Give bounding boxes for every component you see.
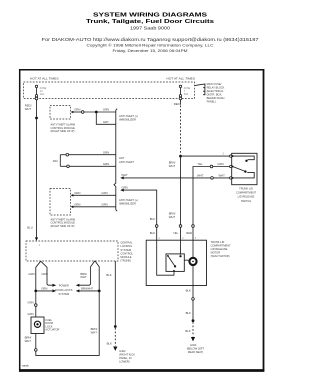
- fuse F7 wire RED dashed down: [174, 100, 181, 155]
- ground symbol G403: [191, 337, 195, 341]
- actuator label: [45, 318, 59, 332]
- connector on pin2 wire: [210, 165, 213, 168]
- svg-text:TRUNK LID: TRUNK LID: [211, 240, 225, 244]
- svg-text:ACTUATOR: ACTUATOR: [45, 328, 59, 332]
- splice S64: [53, 155, 61, 167]
- svg-text:BLU: BLU: [27, 226, 32, 230]
- anti-theft alarm control module (upper, dashed): [50, 106, 71, 120]
- svg-text:(BELOW LEFT: (BELOW LEFT: [187, 347, 205, 351]
- svg-text:LOWER): LOWER): [119, 359, 130, 363]
- svg-text:SYSTEM WIRING DIAGRAMS: SYSTEM WIRING DIAGRAMS: [93, 13, 208, 19]
- svg-text:WHT: WHT: [25, 339, 32, 343]
- svg-text:SWITCH: SWITCH: [241, 199, 251, 203]
- connector on fuse F7 output: [179, 97, 182, 100]
- svg-text:GRN: GRN: [101, 191, 107, 195]
- internal bottom contact: [173, 270, 175, 272]
- internal contact dot: [179, 255, 181, 257]
- left arrow wire down to motor (BLK): [120, 185, 157, 224]
- svg-text:GRN: GRN: [42, 272, 48, 276]
- svg-text:IMMOBILIZER: IMMOBILIZER: [119, 117, 136, 121]
- junction dot on left leg: [34, 290, 37, 293]
- svg-text:TRUNK LID: TRUNK LID: [239, 186, 253, 190]
- svg-text:ANTI-THEFT: ANTI-THEFT: [119, 160, 135, 164]
- svg-text:(RIGHT KICK: (RIGHT KICK: [119, 352, 135, 356]
- svg-text:GRN: GRN: [27, 312, 33, 316]
- svg-text:(RIGHT SIDE OF IP): (RIGHT SIDE OF IP): [51, 129, 75, 133]
- svg-text:MOTOR: MOTOR: [211, 251, 221, 255]
- svg-text:DISTR. BOX,: DISTR. BOX,: [207, 93, 223, 97]
- fuse F14: [35, 85, 46, 97]
- svg-text:RELAY BLOCK: RELAY BLOCK: [207, 86, 225, 90]
- svg-text:COMPARTMENT: COMPARTMENT: [211, 243, 231, 247]
- motor M (ring): [189, 258, 196, 265]
- destination label: hot anti-theft (middle): [119, 156, 135, 164]
- svg-text:(RIGHT SIDE OF IP): (RIGHT SIDE OF IP): [51, 224, 75, 228]
- svg-text:G402: G402: [119, 349, 126, 353]
- svg-text:HOT AT ALL TIMES: HOT AT ALL TIMES: [167, 77, 196, 81]
- junction dot on tent2 right leg: [98, 290, 101, 293]
- svg-text:2: 2: [182, 237, 184, 240]
- fuse F7: [179, 85, 190, 97]
- svg-text:BRN/WHT: BRN/WHT: [81, 286, 94, 290]
- svg-text:POWER: POWER: [59, 284, 69, 288]
- motor box location text: [211, 240, 231, 258]
- wire from arrow to tent2 right leg junction: [79, 290, 99, 292]
- svg-text:GRN: GRN: [217, 162, 223, 166]
- svg-text:ANTI-THEFT (+): ANTI-THEFT (+): [119, 198, 138, 202]
- svg-text:BLK: BLK: [186, 311, 191, 315]
- BLK wire from module right bottom: [106, 261, 115, 325]
- trunk lid release switch box: [232, 153, 257, 184]
- inline connector near fuel actuator: [35, 349, 38, 352]
- svg-text:10A: 10A: [40, 93, 45, 96]
- svg-text:3: 3: [195, 237, 197, 240]
- motor ground lead inside box: [192, 266, 194, 286]
- dashed ground run: [107, 328, 116, 346]
- inline connector: [35, 304, 38, 307]
- switch lever from pin 2: [233, 167, 246, 172]
- svg-text:GRN: GRN: [121, 185, 127, 189]
- destination label: anti-theft immobilizer (bottom): [119, 198, 138, 205]
- trunk lid release motor box: [146, 240, 206, 285]
- wire into motor box: [173, 227, 181, 240]
- svg-text:Friday, December 15, 2006 06:: Friday, December 15, 2006 06:04PM: [113, 49, 188, 53]
- svg-text:saab: saab: [22, 363, 29, 367]
- connector on S64 top wire: [66, 153, 69, 156]
- svg-text:ANTI-THEFT (+): ANTI-THEFT (+): [119, 114, 138, 118]
- svg-text:WHT: WHT: [219, 173, 226, 177]
- svg-text:WHT: WHT: [121, 173, 128, 177]
- connector on F7 wire: [179, 225, 182, 228]
- module location text: [51, 218, 76, 228]
- svg-text:PANEL): PANEL): [207, 100, 216, 104]
- svg-text:BLK: BLK: [107, 342, 112, 346]
- Y-split output 1 from module (lock): [28, 261, 40, 289]
- wire from arrow to tent2 left leg: [79, 261, 95, 286]
- svg-text:WHT: WHT: [169, 215, 176, 219]
- svg-text:1997 Saab 9000: 1997 Saab 9000: [130, 26, 171, 31]
- svg-text:GRN: GRN: [103, 108, 109, 112]
- svg-text:GRN: GRN: [101, 203, 107, 207]
- destination label: anti-theft immobilizer (top): [119, 114, 138, 121]
- wire continues down: [36, 118, 38, 238]
- svg-text:SYSTEM: SYSTEM: [58, 292, 69, 296]
- GRN wire to brace: [84, 108, 116, 112]
- wire RED/WHT from fuse F14 down to central locking module: [25, 100, 37, 117]
- switch pin 1 terminal: [230, 155, 232, 157]
- svg-text:LID RELEASE: LID RELEASE: [211, 247, 228, 251]
- distribution box location label with bracket: [195, 82, 225, 104]
- svg-text:WHT: WHT: [25, 107, 32, 111]
- pin arrow upper: [71, 194, 74, 197]
- pin arrow at module right edge: [71, 111, 74, 114]
- svg-text:LID RELEASE: LID RELEASE: [238, 195, 255, 199]
- Y-split right leg: [41, 261, 53, 285]
- link internal switch to motor: [184, 259, 189, 261]
- svg-text:BLK: BLK: [150, 217, 155, 221]
- actuator motor ring: [34, 321, 40, 327]
- svg-text:S64: S64: [53, 159, 58, 163]
- junction dot on GRN wire: [95, 111, 98, 114]
- wire from switch pin 2 down to motor: [193, 162, 230, 225]
- wire segment to actuator: [27, 306, 35, 317]
- wire from S64 bottom to brace: [60, 165, 66, 167]
- wire segment: [69, 165, 116, 167]
- off-page arrow lower right: [76, 289, 80, 292]
- svg-text:GRY: GRY: [103, 120, 109, 124]
- svg-text:WHT: WHT: [169, 164, 176, 168]
- svg-text:BLK: BLK: [185, 329, 190, 333]
- switch contact dot (pin1 side): [245, 160, 247, 162]
- svg-text:REAR SEAT): REAR SEAT): [188, 350, 204, 354]
- brace grouping destination wires: [114, 109, 117, 211]
- svg-text:30A: 30A: [184, 93, 189, 96]
- ground G403 label: [187, 343, 205, 354]
- wire GRN from anti-theft module: [73, 108, 81, 112]
- svg-text:G403: G403: [190, 343, 197, 347]
- wire GRN upper to brace: [73, 191, 115, 195]
- anti-theft alarm control module (lower, dashed): [50, 189, 71, 216]
- svg-text:HOT: HOT: [119, 156, 125, 160]
- left arrow wire to trunk lid switch (WHT): [120, 173, 229, 179]
- wire from S64 top to brace: [60, 154, 66, 156]
- svg-text:HOT AT ALL TIMES: HOT AT ALL TIMES: [30, 77, 59, 81]
- fuel door lock actuator box: [31, 317, 44, 334]
- svg-text:SYSTEM: SYSTEM: [120, 248, 131, 252]
- module location text: [51, 123, 76, 133]
- module location text: [120, 241, 133, 263]
- switch pin 2 terminal: [230, 165, 232, 167]
- splice dot on RED/WHT wire: [35, 117, 38, 120]
- svg-text:Trunk, Tailgate, Fuel Door Cir: Trunk, Tailgate, Fuel Door Circuits: [86, 19, 214, 25]
- splice dot: [114, 325, 117, 328]
- ground wire segment: [186, 300, 193, 319]
- connector on S64 bottom wire: [67, 165, 70, 168]
- switch internal path from pin 1: [233, 156, 254, 160]
- internal switch sub-box: [166, 254, 184, 272]
- connector on fuse F14 output: [35, 97, 38, 100]
- wire segment: [69, 154, 116, 156]
- wire up to actuator: [35, 334, 37, 349]
- svg-text:LOCKING: LOCKING: [120, 244, 132, 248]
- svg-text:BEHIND DASH: BEHIND DASH: [207, 96, 225, 100]
- svg-text:CONTROL: CONTROL: [120, 251, 133, 255]
- svg-text:WHT: WHT: [197, 173, 204, 177]
- svg-text:GRN: GRN: [103, 150, 109, 154]
- svg-text:DOOR LOCKS: DOOR LOCKS: [55, 288, 73, 292]
- svg-text:GRN: GRN: [28, 272, 34, 276]
- wire from dot to off-page arrow lower: [36, 287, 53, 291]
- splice dot on ground wire: [192, 319, 195, 322]
- svg-text:Copyright © 1998 Mitchell Repa: Copyright © 1998 Mitchell Repair Informa…: [87, 43, 214, 47]
- svg-text:RED: RED: [174, 102, 180, 106]
- pin arrow lower: [71, 206, 74, 209]
- svg-text:GRN: GRN: [74, 108, 80, 112]
- svg-text:MODULE: MODULE: [120, 255, 131, 259]
- svg-text:2: 2: [223, 153, 225, 156]
- tent2 right leg long ground-side run: [36, 261, 99, 356]
- switch location text: [236, 186, 256, 203]
- connector on BLK wire: [155, 225, 158, 228]
- svg-text:YEL: YEL: [197, 162, 203, 166]
- arrow into central locking module: [35, 237, 38, 241]
- wire 2 into internal switch: [180, 240, 182, 255]
- off-page destination text: power door locks system: [55, 284, 73, 297]
- svg-text:CENTRAL: CENTRAL: [120, 241, 133, 245]
- svg-text:GRN: GRN: [74, 191, 80, 195]
- svg-text:GRN: GRN: [27, 300, 33, 304]
- wire into motor box: [186, 227, 193, 240]
- svg-text:WHT: WHT: [91, 330, 98, 334]
- svg-text:For DIAKOM-AUTO http://www.dia: For DIAKOM-AUTO http://www.diakom.ru Tag…: [42, 37, 260, 42]
- svg-text:(TRUNK): (TRUNK): [120, 259, 131, 263]
- wire GRN lower to brace: [73, 203, 115, 207]
- svg-text:1: 1: [39, 244, 41, 247]
- connector on ground wire: [192, 298, 195, 301]
- off-page arrow upper (to power door locks): [52, 284, 56, 287]
- junction dot at switch feed: [179, 155, 182, 158]
- svg-text:BLK: BLK: [150, 231, 155, 235]
- connector on WHT wire: [211, 177, 214, 180]
- actuator ground wire label: [25, 336, 32, 343]
- central locking system control module (dashed): [26, 241, 118, 261]
- svg-text:(ELECTRICAL: (ELECTRICAL: [207, 89, 224, 93]
- switch pin 3 terminal: [230, 177, 232, 179]
- wire continues down to motor box: [169, 156, 181, 225]
- electrical distribution box (dashed): [24, 82, 195, 99]
- svg-text:GRN: GRN: [41, 287, 47, 291]
- svg-text:MAXI FUSE/: MAXI FUSE/: [207, 82, 222, 86]
- ground G402 label: [119, 349, 135, 364]
- svg-text:GRN: GRN: [74, 203, 80, 207]
- off-page arrow upper right: [76, 284, 80, 287]
- internal lever: [168, 256, 175, 266]
- svg-text:COMPARTMENT: COMPARTMENT: [236, 190, 256, 194]
- fuel door actuator feed wire: [27, 292, 35, 304]
- svg-text:PANEL, IN: PANEL, IN: [119, 356, 131, 360]
- svg-text:BLK: BLK: [106, 273, 111, 277]
- svg-text:RED: RED: [186, 231, 192, 235]
- svg-text:(W/ACTUATOR): (W/ACTUATOR): [211, 254, 230, 258]
- branch wire GRY to brace: [96, 112, 116, 124]
- wire 3 to motor top: [192, 240, 194, 257]
- wire into motor box: [150, 227, 157, 240]
- inline connector on GRN wire: [81, 111, 84, 114]
- svg-text:GRN: GRN: [103, 162, 109, 166]
- connector on motor feed: [192, 225, 195, 228]
- switch internal path from pin 3: [233, 172, 254, 178]
- svg-text:BLK: BLK: [186, 288, 191, 292]
- wire 1 internal run to contact: [157, 240, 174, 275]
- ground symbol G402: [113, 347, 117, 351]
- svg-text:YEL: YEL: [173, 231, 179, 235]
- svg-text:IMMOBILIZER: IMMOBILIZER: [119, 201, 136, 205]
- branch wire to switch pin 1: [181, 153, 230, 157]
- svg-text:WHT: WHT: [80, 275, 87, 279]
- svg-text:1: 1: [158, 237, 160, 240]
- dashed ground run: [185, 322, 193, 336]
- diagram frame border: [19, 69, 264, 372]
- ground wire BLK below motor box: [186, 286, 193, 298]
